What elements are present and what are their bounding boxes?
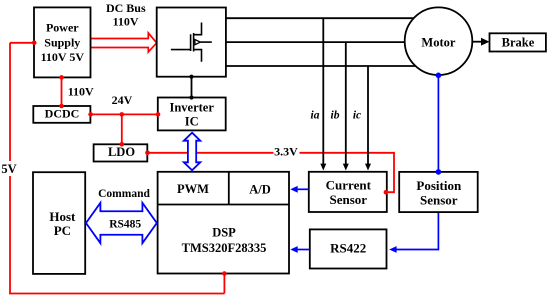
svg-text:DC Bus: DC Bus: [106, 1, 146, 15]
junction dot: 24V at LDO top: [120, 142, 125, 147]
wire: ic sense drop to Current Sensor: [367, 66, 369, 164]
block Position Sensor: [399, 172, 478, 212]
junction dot: blue at motor bottom: [436, 73, 442, 79]
svg-text:110V: 110V: [68, 85, 94, 99]
svg-text:5V: 5V: [1, 162, 16, 176]
svg-text:Brake: Brake: [502, 36, 535, 50]
arrowhead RS422 to DSP: [290, 246, 297, 253]
svg-text:3.3V: 3.3V: [274, 145, 298, 159]
svg-text:24V: 24V: [112, 93, 133, 107]
svg-text:110V 5V: 110V 5V: [41, 50, 85, 64]
svg-text:Current: Current: [326, 178, 372, 193]
svg-text:110V: 110V: [113, 15, 139, 29]
wire: 5V red left vertical rail: [9, 43, 11, 294]
svg-text:LDO: LDO: [108, 145, 135, 159]
junction dot: blue at Position Sensor top: [436, 169, 442, 175]
svg-text:RS422: RS422: [330, 241, 366, 256]
wire: motor to brake link: [472, 41, 481, 43]
wire: blue Current Sensor to A/D: [297, 188, 309, 190]
block Inverter IC: [158, 98, 226, 131]
svg-text:TMS320F28335: TMS320F28335: [182, 241, 267, 255]
junction dot: 5V at DSP bottom: [222, 271, 227, 276]
svg-text:IC: IC: [185, 114, 199, 128]
block RS422: [310, 229, 387, 268]
svg-text:Inverter: Inverter: [169, 100, 214, 114]
svg-text:Command: Command: [98, 188, 150, 200]
block inverter power stage: [157, 8, 226, 77]
block arrow: blue bidirectional RS485 Host PC to DSP: [86, 203, 157, 243]
block Power Supply: [34, 7, 91, 77]
wire: 24V red run DCDC to Inverter IC: [90, 113, 157, 115]
block arrow: DC Bus red power arrow: [91, 33, 157, 52]
junction dot: 3.3V at Current Sensor right: [384, 190, 389, 195]
svg-text:ic: ic: [353, 109, 361, 121]
wire: blue position feedback motor to RS422: [396, 75, 438, 250]
wire: 24V red branch down to LDO: [121, 114, 123, 144]
arrowhead motor to brake: [481, 38, 490, 46]
block arrow: blue bidirectional Inverter IC to PWM: [184, 133, 201, 171]
arrowhead Current Sensor to A/D: [290, 186, 297, 193]
wire: 5V red feed from left rail into Power Supply: [10, 42, 34, 44]
wire: blue RS422 to DSP: [297, 249, 310, 251]
junction dot: 110V at DCDC top: [59, 104, 64, 109]
wire: phase A line inverter to motor: [226, 17, 420, 19]
junction dot: 5V at Power Supply left: [32, 41, 37, 46]
junction dot: 3.3V at LDO right: [145, 151, 150, 156]
svg-text:Sensor: Sensor: [420, 193, 458, 208]
svg-text:Sensor: Sensor: [330, 192, 368, 207]
svg-text:RS485: RS485: [109, 219, 141, 231]
junction dot: gate link at Inverter IC top: [189, 95, 193, 99]
svg-text:PWM: PWM: [177, 182, 209, 196]
svg-text:DSP: DSP: [212, 226, 236, 240]
label: 5V net: [1, 161, 16, 176]
svg-text:ia: ia: [311, 109, 320, 121]
wire: phase B line inverter to motor: [226, 41, 420, 43]
svg-text:Power: Power: [46, 21, 79, 35]
block DCDC: [33, 106, 90, 123]
transistor: MOSFET symbol inside power stage: [171, 23, 212, 62]
junction dot: 24V at Inverter IC left: [156, 112, 161, 117]
label: 3.3V net: [274, 145, 300, 160]
wire: gate drive link power stage to Inverter IC: [191, 77, 193, 98]
label: DC Bus 110V: [106, 1, 146, 29]
svg-text:Position: Position: [416, 178, 462, 193]
svg-text:PC: PC: [54, 223, 71, 238]
arrowhead position feedback into RS422: [389, 246, 396, 253]
svg-text:Supply: Supply: [44, 36, 80, 50]
wire: ia sense drop to Current Sensor: [322, 18, 324, 164]
junction dot: 24V branch node: [120, 112, 125, 117]
wire: 5V red bottom horizontal run: [9, 293, 224, 295]
svg-text:Motor: Motor: [421, 36, 455, 50]
wire: ib sense drop to Current Sensor: [345, 42, 347, 164]
motor M: [405, 7, 473, 75]
svg-text:DCDC: DCDC: [45, 107, 80, 121]
wire: 3.3V red run LDO to Current Sensor: [147, 153, 394, 192]
block Current Sensor: [309, 172, 387, 212]
wire: 5V red riser into DSP bottom: [223, 274, 225, 294]
transistor body arrow: [195, 40, 201, 45]
block DSP TMS320F28335 with PWM and A/D units: [158, 172, 289, 274]
block Host PC: [33, 172, 85, 274]
junction dot: gate link at power stage bottom: [189, 75, 193, 79]
arrowhead ia into Current Sensor: [320, 164, 326, 171]
svg-text:Host: Host: [49, 209, 76, 224]
wire: phase C line inverter to motor: [226, 65, 420, 67]
svg-text:ib: ib: [331, 109, 340, 121]
svg-text:A/D: A/D: [249, 182, 271, 196]
block Brake: [490, 33, 546, 51]
arrowhead ib into Current Sensor: [343, 164, 349, 171]
junction dot: 24V at DCDC right: [88, 112, 93, 117]
arrowhead ic into Current Sensor: [365, 164, 371, 171]
junction dot: 110V at Power Supply bottom: [59, 75, 64, 80]
block LDO: [94, 144, 148, 161]
wire: 110V red drop Power Supply to DCDC: [61, 77, 63, 106]
